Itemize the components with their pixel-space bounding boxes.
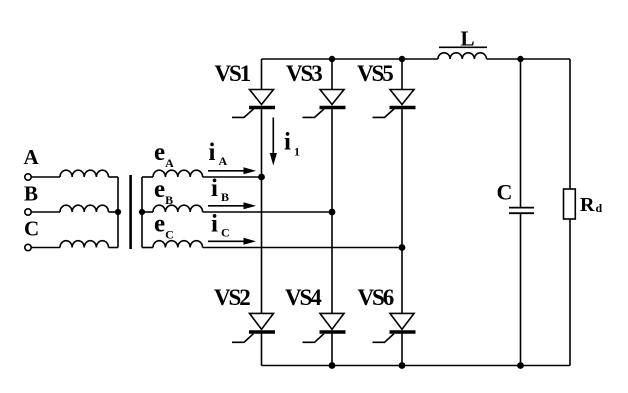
thyristor VS1 xyxy=(232,59,275,117)
arrow iC xyxy=(208,238,256,245)
inductor L xyxy=(438,53,486,59)
wire VS2 cathode to bottom bus xyxy=(261,332,263,366)
wire phase C to bridge xyxy=(203,247,402,249)
arrow iA xyxy=(208,167,256,174)
resistor Rd xyxy=(564,189,576,219)
svg-text:Rd: Rd xyxy=(580,194,602,216)
wire primary B to star point xyxy=(109,211,119,213)
svg-text:VS5: VS5 xyxy=(357,61,393,86)
terminal A xyxy=(25,174,31,180)
thyristor VS2 xyxy=(232,313,275,342)
svg-text:C: C xyxy=(497,180,513,205)
winding secondary eB xyxy=(153,205,203,212)
svg-text:iC: iC xyxy=(211,211,230,240)
svg-text:VS3: VS3 xyxy=(286,61,322,86)
wire VS5 cathode to VS6 anode xyxy=(401,109,403,313)
wire phase A to bridge xyxy=(203,176,262,178)
wire VS6 cathode to bottom bus xyxy=(401,332,403,366)
wire primary C to star point xyxy=(109,247,119,249)
node top bus VS3 xyxy=(329,56,335,62)
wire primary A to star point xyxy=(109,176,119,178)
winding primary C xyxy=(60,241,108,248)
svg-text:iB: iB xyxy=(211,175,229,204)
svg-text:eB: eB xyxy=(154,176,173,207)
svg-text:eC: eC xyxy=(154,211,174,242)
wire secondary A stub xyxy=(142,176,153,178)
wire capacitor branch top xyxy=(520,59,522,207)
svg-text:VS2: VS2 xyxy=(214,285,250,310)
winding secondary eA xyxy=(153,170,203,177)
terminal B xyxy=(25,209,31,215)
thyristor VS3 xyxy=(303,59,346,117)
wire bottom bus xyxy=(262,365,571,367)
thyristor VS6 xyxy=(373,313,416,342)
wire VS1 cathode to VS2 anode xyxy=(261,109,263,313)
transformer core xyxy=(129,175,132,249)
arrow i1 xyxy=(270,118,277,166)
wire phase B to bridge xyxy=(203,211,332,213)
node top bus VS5 xyxy=(399,56,405,62)
svg-text:C: C xyxy=(24,217,39,241)
node bottom bus C branch xyxy=(517,362,524,369)
svg-text:A: A xyxy=(24,145,40,169)
node phase A junction xyxy=(258,174,265,181)
node phase C junction xyxy=(399,244,406,251)
svg-text:i1: i1 xyxy=(284,129,300,159)
node secondary neutral xyxy=(139,209,145,215)
winding primary A xyxy=(60,170,108,177)
svg-text:L: L xyxy=(461,27,475,51)
wire B primary lead xyxy=(31,211,60,213)
node top bus C branch xyxy=(517,56,523,62)
wire right rail top xyxy=(569,59,571,189)
winding secondary eC xyxy=(153,241,203,248)
svg-text:VS4: VS4 xyxy=(285,285,322,310)
thyristor VS4 xyxy=(303,313,346,342)
wire capacitor branch bottom xyxy=(520,214,522,366)
node primary neutral xyxy=(115,209,121,215)
winding primary B xyxy=(60,205,108,212)
capacitor C xyxy=(509,208,534,214)
node phase B junction xyxy=(329,209,336,216)
node bottom bus VS6 xyxy=(399,362,406,369)
svg-text:VS6: VS6 xyxy=(358,285,394,310)
wire VS3 cathode to VS4 anode xyxy=(331,109,333,313)
svg-text:B: B xyxy=(24,182,38,206)
wire right rail bottom xyxy=(569,219,571,366)
svg-text:eA: eA xyxy=(154,139,174,170)
thyristor VS5 xyxy=(373,59,416,117)
inductor L overline xyxy=(439,46,487,48)
terminal C xyxy=(25,244,31,250)
node bottom bus VS4 xyxy=(329,362,336,369)
arrow iB xyxy=(208,202,256,209)
wire top bus xyxy=(262,58,571,60)
wire A primary lead xyxy=(31,176,60,178)
wire VS4 cathode to bottom bus xyxy=(331,332,333,366)
svg-text:VS1: VS1 xyxy=(215,61,251,86)
svg-text:iA: iA xyxy=(209,139,228,168)
wire secondary B stub xyxy=(142,211,153,213)
wire primary star bus xyxy=(117,177,119,248)
wire secondary star bus xyxy=(141,177,143,248)
wire C primary lead xyxy=(31,247,60,249)
wire secondary C stub xyxy=(142,247,153,249)
